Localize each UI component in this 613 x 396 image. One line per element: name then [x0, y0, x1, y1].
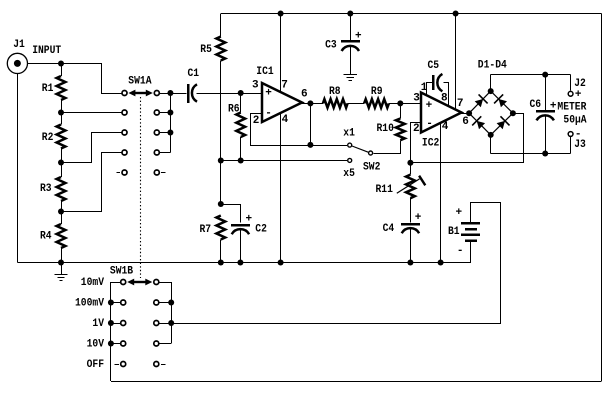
resistor R7	[216, 216, 225, 240]
svg-text:x5: x5	[343, 168, 355, 180]
wire: bridge bottom corner down	[490, 135, 492, 154]
svg-text:-: -	[457, 245, 464, 257]
switch SW2 x1 contact	[348, 143, 352, 147]
svg-text:SW1A: SW1A	[128, 76, 152, 88]
switch SW1A right contact row2	[154, 110, 159, 115]
svg-text:C1: C1	[188, 68, 200, 80]
svg-text:3: 3	[413, 93, 420, 105]
svg-text:R9: R9	[371, 86, 383, 98]
switch SW1B left contact row5 (off) with stub	[115, 364, 120, 366]
svg-text:-: -	[426, 118, 433, 130]
junction: C3 on top rail	[347, 11, 353, 17]
wire: IC1 pin2 loop	[251, 114, 311, 146]
svg-text:+: +	[550, 101, 557, 113]
op-amp IC1	[262, 83, 302, 122]
capacitor C5 loop pin8 side	[444, 83, 449, 107]
switch SW1B wiper arrow	[132, 281, 147, 283]
diode D (top-right, points to top corner)	[499, 99, 507, 107]
svg-text:METER: METER	[557, 101, 586, 113]
wire: C6 top lead	[545, 75, 547, 110]
wire: IC2 pin7 to top rail	[455, 14, 457, 110]
svg-text:-: -	[265, 108, 272, 120]
switch SW1B right contact row3	[154, 321, 159, 326]
svg-text:C3: C3	[325, 39, 337, 51]
wire: ground rail	[17, 262, 470, 264]
junction: C6 bottom	[542, 151, 548, 157]
wire: top rail	[221, 13, 602, 15]
wire: node to R11	[410, 163, 412, 175]
switch SW2 arm	[352, 146, 368, 152]
switch SW1B left contact row1	[121, 280, 126, 285]
wire: SW1B left bus down to bottom rail	[110, 282, 112, 381]
switch SW1A left contact row1	[122, 91, 127, 96]
svg-text:6: 6	[462, 116, 469, 128]
trimmer arrow R11	[397, 179, 420, 193]
junction: R6 bottom on rail	[238, 158, 244, 164]
junction: R6 top tap	[238, 90, 244, 96]
wire: R9 to node	[389, 103, 400, 105]
junction: bridge left corner	[466, 110, 472, 116]
wire: J1 to input node	[28, 63, 62, 65]
wire: J2 drop	[570, 75, 572, 91]
svg-text:+: +	[355, 31, 362, 43]
junction: SW1B right bus row3	[168, 320, 174, 326]
switch SW1B right contact row2	[154, 300, 159, 305]
junction: pin7 on top rail	[278, 11, 284, 17]
wire: meter minus rail	[491, 153, 571, 155]
svg-text:D1-D4: D1-D4	[478, 60, 507, 72]
diode bridge edge top-right	[491, 91, 513, 113]
wire: bottom rail	[111, 381, 602, 383]
svg-text:+: +	[415, 212, 422, 224]
ground symbol (C3)	[344, 74, 357, 76]
junction: R9/R10/IC2 node	[397, 100, 403, 106]
wire: C1 to IC1 pin3	[197, 93, 263, 95]
wire: right border up to top rail	[601, 14, 603, 382]
svg-text:+: +	[246, 214, 253, 226]
wire: C6 bottom lead	[545, 115, 547, 153]
svg-text:x1: x1	[343, 127, 355, 139]
svg-text:R2: R2	[42, 132, 54, 144]
capacitor C4	[401, 223, 420, 226]
svg-text:R6: R6	[228, 103, 240, 115]
resistor R3	[57, 177, 66, 201]
wire: IC2 pin2 loop down	[411, 123, 422, 163]
wire: bridge top corner up	[490, 75, 492, 92]
wire: R10 top lead	[400, 103, 402, 118]
diode D (bottom-left, points to left corner)	[477, 121, 485, 129]
svg-text:R4: R4	[40, 230, 52, 242]
svg-text:2: 2	[253, 115, 260, 127]
wire: pin2 node to bridge right corner	[411, 114, 524, 163]
junction: C6 top	[542, 72, 548, 78]
connector J2	[568, 91, 573, 96]
svg-text:IC1: IC1	[256, 66, 274, 78]
resistor R2	[57, 125, 66, 149]
wire: input node to SW1A row1	[62, 64, 122, 94]
junction: C2 bottom on ground rail	[237, 260, 243, 266]
wire: feedback rail to SW2 x5	[221, 160, 347, 162]
capacitor C2	[231, 224, 250, 227]
wire: node to C2 top	[221, 205, 241, 223]
svg-text:C4: C4	[383, 223, 395, 235]
svg-text:OFF: OFF	[87, 359, 104, 371]
switch SW1A left contact row4	[122, 150, 127, 155]
junction: SW1A bus row1	[167, 90, 173, 96]
svg-text:SW2: SW2	[363, 161, 380, 173]
wire: node to IC2 pin3	[400, 103, 421, 105]
junction: IC1 pin4 on ground rail	[278, 260, 284, 266]
wire: feedback to SW2 x1	[310, 145, 347, 147]
wire: R11 to C4	[410, 198, 412, 222]
svg-text:R1: R1	[42, 83, 54, 95]
svg-text:7: 7	[457, 98, 464, 110]
wire: IC1 pin7 to top rail	[280, 14, 282, 93]
svg-text:R5: R5	[200, 44, 212, 56]
battery B1 plates	[461, 222, 480, 224]
wire: J1 down leg to ground rail	[17, 74, 19, 263]
resistor R9	[364, 99, 389, 108]
svg-text:6: 6	[301, 89, 308, 101]
node: input junction	[58, 61, 64, 67]
wire: R6 leads	[240, 93, 242, 113]
wire: C3 bottom lead	[350, 46, 352, 74]
switch SW1A right contact row5 (off) with stub	[154, 170, 159, 175]
wire: IC2 pin4 down to ground rail	[440, 123, 442, 263]
wire: R8 to R9	[348, 103, 365, 105]
ground symbol (input divider)	[61, 263, 63, 275]
switch SW1B left contact row3	[121, 321, 126, 326]
wire: R5 top lead from top rail	[220, 14, 222, 37]
junction: R2/R3 tap	[58, 160, 64, 166]
switch SW1A right contact row3	[154, 130, 159, 135]
svg-text:SW1B: SW1B	[110, 265, 134, 277]
wire: R10 bottom to SW2 common	[374, 141, 401, 154]
switch SW1A left contact row5 (off) with stub	[117, 172, 121, 174]
svg-text:R7: R7	[200, 224, 212, 236]
junction: R3/R4 tap	[58, 209, 64, 215]
capacitor C5	[432, 75, 435, 90]
svg-text:8: 8	[441, 93, 448, 105]
junction: R4 bottom / ground	[58, 260, 64, 266]
junction: feedback node	[307, 142, 313, 148]
junction: IC2 pin2/R11 node	[407, 160, 413, 166]
svg-text:+: +	[265, 88, 272, 100]
diode bridge edge bottom-right	[491, 113, 513, 135]
switch SW1B right contact row5 (off) with stub	[154, 362, 159, 367]
capacitor C3	[341, 40, 360, 43]
svg-text:+: +	[426, 100, 433, 112]
svg-text:R11: R11	[376, 184, 394, 196]
resistor R4	[57, 224, 66, 248]
wire: battery switch feed to SW1B	[171, 323, 501, 325]
svg-text:4: 4	[442, 121, 449, 133]
switch SW2 common contact	[369, 151, 373, 155]
switch SW1B left contact row4	[121, 341, 126, 346]
wire: SW1B right bus	[171, 282, 173, 344]
svg-text:7: 7	[281, 80, 288, 92]
wire: R5 bottom lead down	[220, 61, 222, 205]
svg-text:INPUT: INPUT	[32, 45, 61, 57]
capacitor C1	[187, 84, 190, 103]
wire: SW1A right bus	[170, 93, 172, 153]
svg-text:C6: C6	[530, 99, 542, 111]
svg-text:C2: C2	[255, 224, 267, 236]
junction: IC2 pin4 on ground rail	[438, 260, 444, 266]
wire: meter plus rail	[491, 74, 571, 76]
svg-text:C5: C5	[428, 60, 440, 72]
wire: SW1B left stubs	[111, 282, 120, 284]
junction: bridge top corner	[488, 88, 494, 94]
junction: R1/R2 tap	[58, 110, 64, 116]
junction: SW1B left bus row2	[108, 300, 114, 306]
junction: SW1B right bus row2	[168, 300, 174, 306]
svg-text:50µA: 50µA	[563, 115, 587, 127]
mechanical link dotted line SW1A-SW1B	[140, 97, 142, 278]
svg-text:10V: 10V	[87, 338, 105, 350]
svg-text:100mV: 100mV	[75, 298, 104, 310]
junction: R5/R7/feedback rail	[218, 158, 224, 164]
svg-text:2: 2	[413, 123, 420, 135]
capacitor C5 loop pin1 side	[427, 83, 433, 96]
junction: SW1B left bus row3	[108, 320, 114, 326]
junction: bridge right corner	[510, 110, 516, 116]
wire: R2 leads	[61, 113, 63, 125]
resistor R8	[323, 99, 348, 108]
wire: SW1B right stubs	[160, 282, 172, 284]
wire: C2 bottom lead	[240, 229, 242, 262]
svg-text:J3: J3	[574, 139, 586, 151]
op-amp IC2	[421, 93, 462, 133]
svg-text:R3: R3	[40, 183, 52, 195]
wire: output node down to feedback	[310, 103, 312, 145]
svg-text:+: +	[456, 207, 463, 219]
diode D (bottom-right, points to right corner)	[497, 121, 505, 129]
wire: SW1A bus to C1	[170, 93, 186, 95]
wire: R7 bottom lead	[220, 240, 222, 263]
switch SW1A left contact row2	[122, 110, 127, 115]
junction: SW1A bus row3	[167, 130, 173, 136]
wire: battery plus up and over	[471, 203, 501, 324]
switch SW1B right contact row4	[154, 341, 159, 346]
wire: IC1 output stub	[301, 103, 310, 105]
connector J1 (input jack)	[7, 53, 27, 73]
resistor R1	[57, 76, 66, 100]
resistor R10	[396, 119, 405, 141]
wire: tap R2/R3 to SW1A row3	[62, 133, 122, 163]
junction: SW1B left bus row4	[108, 341, 114, 347]
wire: IC1 pin4 down to ground rail	[280, 113, 282, 263]
diode D (top-left, points to top corner)	[475, 99, 483, 107]
resistor R11 (trimmer)	[406, 175, 415, 199]
wire: IC2 output to bridge left corner	[461, 113, 470, 115]
svg-text:R8: R8	[329, 86, 341, 98]
switch SW1B left contact row2	[121, 300, 126, 305]
svg-text:R10: R10	[377, 123, 394, 135]
wire: R1 leads	[61, 64, 63, 77]
junction: R7 bottom on ground rail	[218, 260, 224, 266]
wire: tap R3/R4 to SW1A row4	[62, 153, 122, 212]
diode bridge edge top-left	[469, 91, 491, 113]
svg-text:J1: J1	[13, 39, 25, 51]
switch SW1B right contact row1	[154, 280, 159, 285]
junction: SW1A bus row2	[167, 110, 173, 116]
junction: C4 bottom on ground rail	[407, 260, 413, 266]
wire: R4 leads	[61, 212, 63, 225]
capacitor C6	[536, 110, 555, 113]
svg-text:+: +	[575, 89, 582, 101]
switch SW1A wiper arrow	[133, 92, 147, 94]
junction: IC1 output node	[307, 100, 313, 106]
resistor R5	[216, 37, 225, 61]
switch SW1A right contact row4	[154, 150, 159, 155]
wire: J3 drop	[570, 137, 572, 153]
wire: battery minus lead	[470, 242, 472, 263]
svg-text:10mV: 10mV	[81, 277, 105, 289]
wire: R3 leads	[61, 163, 63, 178]
svg-text:IC2: IC2	[422, 137, 439, 149]
svg-text:B1: B1	[448, 226, 460, 238]
resistor R6	[236, 113, 245, 138]
connector J3	[568, 132, 573, 137]
junction: bridge bottom corner	[488, 132, 494, 138]
switch SW1A right contact row1	[154, 91, 159, 96]
wire: C4 bottom lead	[410, 228, 412, 262]
wire: tap R1/R2 to SW1A row2	[61, 112, 121, 114]
svg-text:4: 4	[282, 114, 289, 126]
wire: out to R8	[310, 103, 323, 105]
switch SW2 x5 contact	[348, 158, 352, 162]
wire: C3 top lead	[350, 14, 352, 41]
junction: IC2 pin7 on top rail	[453, 11, 459, 17]
wire: SW1A right stubs to bus	[160, 93, 170, 95]
switch SW1A left contact row3	[122, 130, 127, 135]
junction: R7/C2 top node	[218, 201, 224, 207]
svg-text:1V: 1V	[92, 318, 104, 330]
diode bridge edge bottom-left	[469, 113, 491, 135]
svg-text:3: 3	[252, 80, 259, 92]
